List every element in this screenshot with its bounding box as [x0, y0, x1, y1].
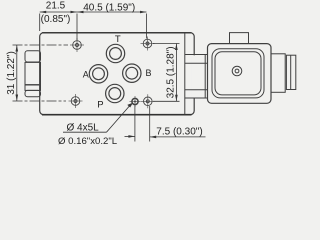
svg-text:P: P: [97, 99, 103, 110]
port P: [106, 84, 124, 102]
dim 7.5 bottom: [125, 106, 206, 142]
solenoid connector housing outer: [208, 44, 272, 104]
body end-block internal edge: [184, 33, 186, 114]
svg-text:A: A: [83, 70, 89, 80]
dim 32.5 right vertical: [153, 44, 180, 102]
ports: [89, 44, 141, 102]
svg-text:7.5 (0.30"): 7.5 (0.30"): [156, 127, 202, 138]
bolt hole bottom-left: [69, 94, 83, 108]
svg-text:32.5 (1.28"): 32.5 (1.28"): [165, 46, 176, 98]
bolt hole top-left: [70, 38, 84, 52]
neck between plate and solenoid: [185, 55, 208, 99]
DIN plug face outer contour: [212, 49, 264, 98]
mask: neck opening in plate right edge: [192, 55, 197, 97]
port B: [123, 64, 141, 82]
valve body plate: [40, 33, 195, 115]
cable gland end nut: [286, 55, 295, 89]
left end cap stub: [25, 51, 41, 97]
dim 31 left vertical: [13, 45, 69, 101]
svg-text:T: T: [115, 34, 121, 45]
dim 21.5 / 40.5 top line: [40, 11, 147, 40]
leader to pilot hole: [63, 103, 133, 133]
bolt hole top-right: [141, 37, 155, 51]
port T: [106, 44, 124, 62]
svg-text:Ø 4x5L: Ø 4x5L: [67, 123, 100, 134]
bolt hole bottom-right: [141, 94, 155, 108]
svg-text:31 (1.22"): 31 (1.22"): [6, 51, 17, 95]
port A: [89, 65, 107, 83]
bolt holes with crosshairs: [69, 37, 155, 109]
dimension lines: [13, 11, 206, 142]
small pilot hole: [130, 96, 141, 107]
center screw: [232, 66, 242, 76]
cable gland block: [271, 54, 285, 93]
plate top edge (darker scan line): [42, 32, 192, 34]
plate bottom edge (darker scan line): [42, 114, 192, 116]
svg-text:Ø 0.16"x0.2"L: Ø 0.16"x0.2"L: [58, 136, 118, 147]
svg-text:40.5 (1.59"): 40.5 (1.59"): [83, 2, 135, 13]
svg-text:B: B: [145, 68, 151, 78]
svg-text:(0.85"): (0.85"): [41, 14, 71, 25]
connector top tab: [230, 33, 249, 44]
svg-text:21.5: 21.5: [46, 0, 66, 11]
DIN plug face inner contour: [215, 52, 261, 95]
